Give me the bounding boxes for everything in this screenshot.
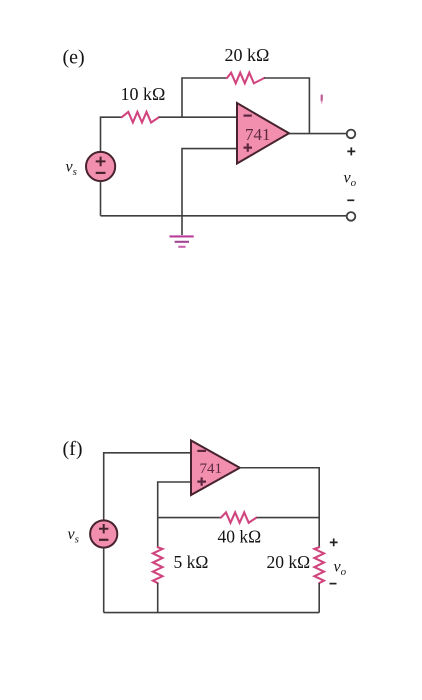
artifact pink mark <box>321 96 323 101</box>
op-amp U1 minus sign <box>244 114 252 116</box>
resistor R5 20k zigzag vertical <box>314 547 324 583</box>
wire: output right and down <box>240 468 319 548</box>
svg-text:40 kΩ: 40 kΩ <box>218 527 262 547</box>
label plus output <box>347 147 355 155</box>
label minus output f <box>330 583 337 585</box>
wire: 5k bottom lead <box>157 583 159 613</box>
wire: bottom rail f <box>104 612 320 614</box>
output terminal top <box>347 130 356 139</box>
svg-text:20 kΩ: 20 kΩ <box>267 552 311 572</box>
resistor R2 20k zigzag <box>227 73 264 84</box>
wire: source top to R1 left <box>101 117 122 151</box>
svg-text:741: 741 <box>200 461 223 477</box>
wire: source bottom to bottom rail <box>103 548 105 613</box>
wire: feedback row left segment <box>158 517 221 519</box>
wire: R1 right to inverting input <box>159 116 237 118</box>
svg-text:(f): (f) <box>63 438 83 460</box>
ground bar 1 <box>170 235 194 237</box>
resistor R3 40k zigzag <box>221 512 257 522</box>
op-amp U1 plus sign <box>244 143 253 151</box>
label minus output <box>347 199 354 201</box>
wire: feedback row right segment <box>257 517 320 519</box>
svg-text:vo: vo <box>344 170 357 190</box>
op-amp U2 minus sign <box>197 450 206 452</box>
svg-text:741: 741 <box>245 125 271 144</box>
resistor R4 5k zigzag vertical <box>153 547 163 583</box>
output terminal bottom <box>347 212 356 221</box>
label plus output f <box>330 539 338 547</box>
svg-text:(e): (e) <box>63 47 85 69</box>
ground stem <box>181 216 183 235</box>
wire: noninverting input to ground vertical <box>182 149 237 216</box>
wire: feedback top right segment down to output node <box>264 78 309 134</box>
wire: output to terminal <box>289 133 347 135</box>
wire: bottom rail <box>101 215 347 217</box>
svg-text:20 kΩ: 20 kΩ <box>225 45 270 65</box>
wire: feedback top left segment with vertical drop at x=182 <box>182 78 227 117</box>
resistor R1 10k zigzag <box>122 112 159 123</box>
wire: source bottom to bottom rail <box>100 181 102 216</box>
svg-text:vs: vs <box>68 526 79 546</box>
voltage source Vs minus <box>96 172 106 174</box>
wire: noninverting input left and down <box>158 482 191 518</box>
svg-text:vo: vo <box>334 559 347 579</box>
voltage source Vs plus <box>96 157 106 167</box>
wire: source top up and right to inverting input <box>104 453 191 521</box>
voltage source Vs2 circle <box>90 520 117 547</box>
op-amp U1 triangle <box>237 103 289 164</box>
op-amp U2 plus sign <box>197 477 206 485</box>
svg-text:10 kΩ: 10 kΩ <box>121 84 166 104</box>
svg-text:5 kΩ: 5 kΩ <box>174 552 209 572</box>
voltage source Vs2 plus <box>99 524 108 533</box>
wire: 5k top lead <box>157 518 159 548</box>
ground bar 2 <box>175 241 189 243</box>
voltage source Vs circle <box>86 152 115 181</box>
svg-text:vs: vs <box>66 159 77 179</box>
voltage source Vs2 minus <box>99 539 108 541</box>
wire: 20k bottom lead <box>318 583 320 613</box>
op-amp U2 triangle <box>191 441 240 496</box>
ground bar 3 <box>178 246 185 248</box>
